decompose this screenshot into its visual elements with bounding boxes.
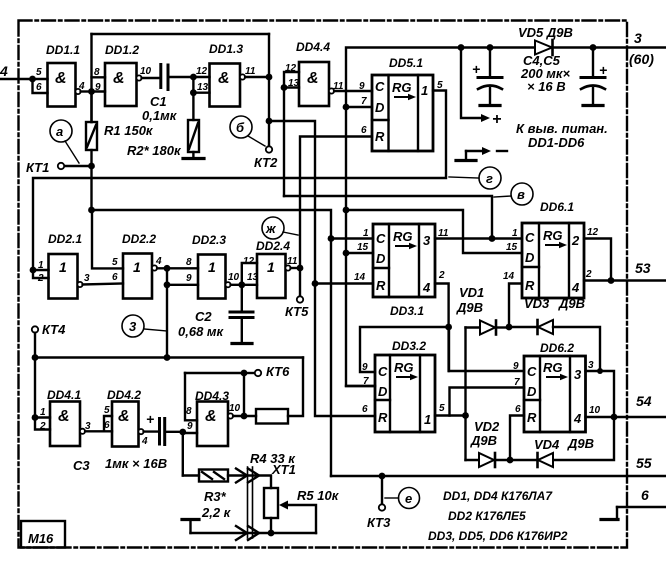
svg-text:55: 55 xyxy=(636,455,652,471)
svg-text:DD1.3: DD1.3 xyxy=(209,42,243,56)
wire node C1 down to R2 xyxy=(192,93,194,120)
wire DD3.1 D stub xyxy=(346,252,373,254)
svg-text:9: 9 xyxy=(359,81,365,92)
wire DD4.2 pin 4 to C3 xyxy=(144,430,159,432)
svg-text:15: 15 xyxy=(357,242,369,253)
wire bus DD2.2-out/KT4/R4 xyxy=(35,356,303,358)
gate DD2.2 output bubble xyxy=(152,265,157,270)
capacitor C2 xyxy=(241,285,243,312)
wire DD2.3 pin 10 to DD2.4 pins 12,13 xyxy=(231,263,257,285)
svg-text:R: R xyxy=(527,410,537,425)
svg-text:&: & xyxy=(55,70,67,87)
register DD3.2 xyxy=(375,355,435,432)
wire KT1 stub xyxy=(64,165,91,167)
svg-text:2,2 к: 2,2 к xyxy=(201,505,232,520)
wire DD1.2 pin 9 stub xyxy=(92,90,106,92)
svg-text:&: & xyxy=(58,408,70,425)
wire DD5.1 output pin 5 down-left long bus to DD2.1 xyxy=(33,91,446,271)
wire R2 to ground xyxy=(192,152,194,158)
svg-text:DD3.2: DD3.2 xyxy=(392,339,426,353)
gate DD1.1 output bubble xyxy=(75,89,80,94)
svg-text:1мк × 16В: 1мк × 16В xyxy=(105,456,167,471)
svg-text:9: 9 xyxy=(513,361,519,372)
svg-text:1: 1 xyxy=(208,259,216,275)
wire DD5.1 D pin 7 stub xyxy=(346,106,372,108)
svg-text:4: 4 xyxy=(155,256,162,267)
wire DD4.4 pin 11 to DD5.1 C xyxy=(334,90,372,92)
wire DD4.1 input pins 1,2 loop xyxy=(35,418,50,430)
svg-text:КТ4: КТ4 xyxy=(42,322,66,337)
svg-text:1: 1 xyxy=(133,259,141,275)
svg-text:VD5 Д9В: VD5 Д9В xyxy=(518,25,573,40)
svg-text:1: 1 xyxy=(424,412,431,427)
svg-text:ж: ж xyxy=(265,221,277,236)
wire v-net DD4.4 inputs to DD3.1 out bus xyxy=(284,196,492,239)
gate DD4.2 xyxy=(112,402,139,447)
svg-text:DD6.2: DD6.2 xyxy=(540,341,574,355)
gate DD1.3 xyxy=(210,64,241,107)
svg-text:10: 10 xyxy=(589,405,601,416)
svg-text:3: 3 xyxy=(85,421,91,432)
svg-text:8: 8 xyxy=(94,67,100,78)
gate DD2.1 output bubble xyxy=(77,282,82,287)
svg-text:12: 12 xyxy=(587,227,599,238)
diode VD3 D9V xyxy=(509,326,538,328)
svg-text:RG: RG xyxy=(543,360,563,375)
svg-text:ХТ1: ХТ1 xyxy=(271,462,296,477)
svg-text:3: 3 xyxy=(129,319,137,334)
gate DD2.4 xyxy=(257,254,286,298)
wire DD6.2 output 3 pin 3 xyxy=(553,371,614,460)
svg-text:&: & xyxy=(218,70,230,87)
svg-text:1: 1 xyxy=(267,259,275,275)
wire KT3 stub xyxy=(381,476,383,504)
svg-text:DD3.1: DD3.1 xyxy=(390,304,424,318)
wire net B +rail to DD6.1 D xyxy=(346,210,522,253)
ground bar under R2 xyxy=(183,157,204,160)
terminal KT3 xyxy=(379,504,385,510)
svg-text:КТ2: КТ2 xyxy=(254,155,278,170)
register DD3.1 xyxy=(373,224,435,297)
wire DD2.2 pin 4 to DD2.3 pins 8,9 and down xyxy=(157,268,198,357)
M16 designation box xyxy=(21,521,65,548)
capacitor C1 xyxy=(159,65,162,88)
connector XT1 bottom chevrons xyxy=(236,526,259,540)
svg-text:DD2.3: DD2.3 xyxy=(192,233,226,247)
wire DD1.3 pin 13 loop xyxy=(193,77,209,93)
svg-text:6: 6 xyxy=(362,404,368,415)
svg-text:D: D xyxy=(378,384,388,399)
svg-text:53: 53 xyxy=(635,260,651,276)
svg-text:КТ5: КТ5 xyxy=(285,304,309,319)
svg-text:3: 3 xyxy=(423,233,431,248)
svg-text:R5 10к: R5 10к xyxy=(297,488,340,503)
svg-text:в: в xyxy=(517,187,525,202)
svg-text:Д9В: Д9В xyxy=(470,433,497,448)
svg-text:DD1, DD4 К176ЛА7: DD1, DD4 К176ЛА7 xyxy=(443,489,553,503)
svg-text:R1 150к: R1 150к xyxy=(104,123,154,138)
svg-text:DD1.1: DD1.1 xyxy=(46,43,80,57)
gate DD4.3 output bubble xyxy=(228,413,233,418)
svg-text:15: 15 xyxy=(506,242,518,253)
svg-text:г: г xyxy=(486,171,493,186)
wire DD3.1 output 4 pin 2 down to VD1 row xyxy=(435,284,449,372)
wire +rail / D-net vertical xyxy=(346,48,666,387)
svg-text:R3*: R3* xyxy=(204,489,227,504)
node input 4 wire xyxy=(0,78,48,80)
wire DD2.1 input pins 1,2 loop xyxy=(33,270,49,278)
wire KT1-bus down to DD2.2 pin 5 xyxy=(92,210,123,268)
svg-text:+: + xyxy=(472,61,480,77)
node zh circle xyxy=(262,217,284,239)
svg-text:2: 2 xyxy=(37,273,44,284)
svg-text:C: C xyxy=(376,231,386,246)
svg-text:13: 13 xyxy=(247,272,259,283)
svg-text:2: 2 xyxy=(585,269,592,280)
svg-text:DD1-DD6: DD1-DD6 xyxy=(528,135,585,150)
svg-text:е: е xyxy=(405,491,412,506)
svg-text:DD2 К176ЛЕ5: DD2 К176ЛЕ5 xyxy=(448,509,526,523)
terminal KT6 xyxy=(255,370,261,376)
svg-text:R2* 180к: R2* 180к xyxy=(127,143,182,158)
svg-text:5: 5 xyxy=(104,405,110,416)
resistor R4 33k xyxy=(256,409,288,424)
wire line 6 with pulse symbol xyxy=(617,506,666,508)
svg-text:3: 3 xyxy=(634,30,642,46)
svg-text:3: 3 xyxy=(84,273,90,284)
svg-text:3: 3 xyxy=(574,367,582,382)
svg-text:Д9В: Д9В xyxy=(558,296,585,311)
connector XT1 top chevrons xyxy=(236,469,259,483)
svg-text:13: 13 xyxy=(197,82,209,93)
svg-text:VD2: VD2 xyxy=(474,419,500,434)
svg-text:VD3: VD3 xyxy=(524,296,550,311)
svg-text:C: C xyxy=(378,364,388,379)
svg-text:Д9В: Д9В xyxy=(567,436,594,451)
gate DD4.2 output bubble xyxy=(138,429,143,434)
wire b net KT2 node to DD3 resets xyxy=(269,121,375,416)
gate DD2.3 output bubble xyxy=(225,282,230,287)
svg-text:1: 1 xyxy=(59,259,67,275)
svg-text:DD4.3: DD4.3 xyxy=(195,389,229,403)
wire DD4.3 pin 8 from KT6 net xyxy=(185,373,197,420)
wire KT5 stub xyxy=(299,268,301,296)
svg-text:0,68 мк: 0,68 мк xyxy=(178,324,225,339)
wire line 55 bus xyxy=(331,475,666,477)
svg-text:DD2.2: DD2.2 xyxy=(122,232,156,246)
wire DD3.1 R stub xyxy=(315,282,373,284)
svg-text:4: 4 xyxy=(141,436,148,447)
svg-text:&: & xyxy=(307,70,319,87)
wire DD4.1 pin 3 to DD4.2 pins 5,6 xyxy=(85,416,112,431)
wire net A bus KT1 to clock/55 xyxy=(92,210,332,476)
capacitor C5 xyxy=(592,48,594,78)
svg-text:8: 8 xyxy=(186,257,192,268)
svg-text:10: 10 xyxy=(140,66,152,77)
wire feedback top run xyxy=(92,33,270,35)
svg-text:2: 2 xyxy=(571,233,580,248)
wire KT6 net xyxy=(185,372,244,374)
svg-text:М16: М16 xyxy=(28,531,54,546)
wire DD6.2 output 4 pin 10 to line 54 xyxy=(586,416,666,418)
svg-text:C: C xyxy=(525,230,535,245)
svg-text:RG: RG xyxy=(543,228,563,243)
register DD5.1 xyxy=(372,75,433,151)
terminal KT5 xyxy=(297,296,303,302)
wire DD3.2 output 1 pin 5 xyxy=(435,414,466,416)
svg-text:1: 1 xyxy=(512,228,518,239)
wire DD1.3 output vertical to KT2 xyxy=(268,34,270,146)
ground bar XT1 return xyxy=(182,518,199,521)
wire DD1.1 output pin 4 xyxy=(81,90,92,92)
svg-text:54: 54 xyxy=(636,393,652,409)
svg-text:КТ3: КТ3 xyxy=(367,515,391,530)
wire R4 up to bus xyxy=(288,358,303,417)
diode VD5 D9V xyxy=(535,41,552,55)
gate DD1.2 output bubble xyxy=(136,75,141,80)
svg-text:C3: C3 xyxy=(73,458,90,473)
svg-text:D: D xyxy=(527,384,537,399)
svg-text:5: 5 xyxy=(437,80,443,91)
connector XT1 columns xyxy=(247,467,249,538)
svg-text:6: 6 xyxy=(112,272,118,283)
wire DD6.2 R pin 6 down to diode junction xyxy=(510,416,524,461)
node b circle xyxy=(230,116,252,138)
wire DD4.3 pin 10 to R4 xyxy=(233,415,256,417)
wire R1 to KT1 node xyxy=(90,150,92,210)
capacitor C4 xyxy=(489,48,491,78)
svg-text:DD6.1: DD6.1 xyxy=(540,200,574,214)
svg-text:4: 4 xyxy=(422,280,431,295)
svg-text:9: 9 xyxy=(186,273,192,284)
svg-text:DD4.4: DD4.4 xyxy=(296,40,330,54)
svg-text:9: 9 xyxy=(187,421,193,432)
svg-text:10: 10 xyxy=(229,403,241,414)
svg-text:11: 11 xyxy=(287,256,298,267)
gate DD2.1 xyxy=(49,254,78,299)
wire VD3 to DD6.2 out3 xyxy=(553,327,600,371)
svg-text:2: 2 xyxy=(438,270,445,281)
svg-text:6: 6 xyxy=(104,420,110,431)
wire DD2.4 pin 11 output xyxy=(291,267,300,269)
svg-text:× 16 В: × 16 В xyxy=(527,79,566,94)
ground symbol minus supply xyxy=(465,151,467,160)
svg-text:DD5.1: DD5.1 xyxy=(389,56,423,70)
svg-text:11: 11 xyxy=(333,81,344,92)
wire DD1.2 pin 10 to C1 xyxy=(142,77,159,79)
svg-text:&: & xyxy=(113,70,125,87)
wire DD1.2 pin 8 stub xyxy=(92,76,106,78)
capacitor C3 xyxy=(158,419,161,445)
svg-text:D: D xyxy=(376,251,386,266)
svg-text:7: 7 xyxy=(361,96,367,107)
gate DD4.4 input vertical xyxy=(284,72,299,196)
svg-text:4: 4 xyxy=(571,280,580,295)
svg-text:RG: RG xyxy=(392,80,412,95)
gate DD1.3 output bubble xyxy=(240,74,245,79)
svg-text:+: + xyxy=(599,62,607,78)
gate DD4.4 output bubble xyxy=(329,88,334,93)
svg-text:DD2.4: DD2.4 xyxy=(256,239,290,253)
gate DD4.1 output bubble xyxy=(80,429,85,434)
svg-text:(60): (60) xyxy=(629,51,654,67)
wire DD3.2 out5 riser to DD6.2 D xyxy=(450,388,525,416)
wire DD2.4 out up to DD5.1 R pin 6 xyxy=(300,137,372,269)
svg-text:КТ1: КТ1 xyxy=(26,160,49,175)
svg-text:9: 9 xyxy=(95,82,101,93)
svg-text:6: 6 xyxy=(641,487,649,503)
wire feedback node vertical at x=91.5 xyxy=(90,34,92,122)
svg-text:+: + xyxy=(492,111,501,128)
wire DD3.1 C stub xyxy=(331,237,373,239)
diode VD2 D9V xyxy=(466,459,480,461)
gate DD1.1 xyxy=(48,63,76,107)
svg-text:&: & xyxy=(118,408,130,425)
terminal KT2 xyxy=(266,146,272,152)
svg-text:C: C xyxy=(375,79,385,94)
node e circle xyxy=(399,488,420,509)
svg-text:14: 14 xyxy=(503,271,515,282)
wire +supply arrow to K vyv. pitan. xyxy=(461,48,483,119)
svg-text:11: 11 xyxy=(438,228,449,239)
wire C3 to DD4.3 pin 9 and R3 xyxy=(165,432,197,476)
svg-text:КТ6: КТ6 xyxy=(266,364,290,379)
svg-text:7: 7 xyxy=(514,377,520,388)
svg-text:1: 1 xyxy=(363,228,369,239)
gate DD1.2 xyxy=(105,63,137,106)
svg-text:5: 5 xyxy=(112,257,118,268)
svg-text:R: R xyxy=(525,278,535,293)
wire DD2.1 pin 3 to DD2.2 pin 6 xyxy=(83,284,123,285)
svg-text:6: 6 xyxy=(361,125,367,136)
junction dots xyxy=(29,76,36,83)
diode VD1 D9V xyxy=(464,328,466,461)
register DD6.1 xyxy=(522,223,584,298)
node 3 circle xyxy=(122,315,144,337)
svg-text:3: 3 xyxy=(588,360,594,371)
resistor R2* 180k xyxy=(188,120,199,152)
resistor R3* 2.2k xyxy=(183,474,199,476)
svg-text:DD4.2: DD4.2 xyxy=(107,388,141,402)
gate DD4.4 xyxy=(299,62,329,106)
svg-text:а: а xyxy=(56,124,63,139)
register RG arrows xyxy=(394,96,410,98)
wire KT4 bus down to DD4.1 input xyxy=(34,358,36,418)
wire KT6 node down to DD4.3 output xyxy=(243,373,245,416)
svg-text:VD1: VD1 xyxy=(459,285,484,300)
svg-text:6: 6 xyxy=(36,82,42,93)
terminal KT4 xyxy=(32,326,38,332)
svg-text:C2: C2 xyxy=(195,309,212,324)
svg-text:D: D xyxy=(375,100,385,115)
svg-text:&: & xyxy=(205,408,217,425)
svg-text:DD4.1: DD4.1 xyxy=(47,388,81,402)
svg-text:C1: C1 xyxy=(150,94,167,109)
register DD6.2 xyxy=(524,356,586,432)
wire R3 to XT1 to R5 xyxy=(228,476,271,489)
node v circle xyxy=(511,183,533,205)
svg-text:б: б xyxy=(236,120,245,135)
wire C1 to DD1.3 pin 12 xyxy=(168,76,210,78)
svg-text:13: 13 xyxy=(288,78,300,89)
svg-text:6: 6 xyxy=(515,404,521,415)
svg-text:D: D xyxy=(525,250,535,265)
svg-text:8: 8 xyxy=(186,406,192,417)
wire DD1.3 pin 11 output xyxy=(245,76,269,78)
svg-text:RG: RG xyxy=(394,360,414,375)
svg-text:+: + xyxy=(146,411,154,427)
svg-text:12: 12 xyxy=(243,256,255,267)
svg-text:10: 10 xyxy=(228,272,240,283)
svg-text:14: 14 xyxy=(354,272,366,283)
svg-text:Д9В: Д9В xyxy=(456,300,483,315)
svg-text:DD3, DD5, DD6 К176ИР2: DD3, DD5, DD6 К176ИР2 xyxy=(428,529,568,543)
potentiometer R5 10k xyxy=(264,488,278,518)
svg-text:5: 5 xyxy=(439,403,445,414)
wire DD6.1 R pin 14 down to diode junction xyxy=(509,284,522,328)
svg-text:4: 4 xyxy=(0,63,8,79)
diode VD4 D9V xyxy=(510,459,538,461)
svg-text:2: 2 xyxy=(39,421,46,432)
svg-text:11: 11 xyxy=(245,66,256,77)
wire XT1 bottom return xyxy=(191,532,317,534)
gate DD2.3 xyxy=(198,255,226,299)
svg-text:12: 12 xyxy=(285,63,297,74)
svg-text:VD4: VD4 xyxy=(534,437,560,452)
wire DD3.1-out4 to DD3.2 C riser xyxy=(360,327,524,372)
wire DD3.1 output 3 pin 11 to DD6.1 C xyxy=(435,237,522,239)
svg-text:R: R xyxy=(378,410,388,425)
gate DD4.3 xyxy=(197,402,228,447)
svg-text:R: R xyxy=(376,278,386,293)
wire DD3.2 D stub from D-net xyxy=(346,385,375,387)
svg-text:9: 9 xyxy=(362,362,368,373)
gate DD2.2 xyxy=(123,254,152,299)
svg-text:4: 4 xyxy=(78,81,85,92)
svg-text:5: 5 xyxy=(36,67,42,78)
svg-text:R: R xyxy=(375,129,385,144)
svg-text:7: 7 xyxy=(363,376,369,387)
gate DD2.4 output bubble xyxy=(285,265,290,270)
svg-text:К выв. питан.: К выв. питан. xyxy=(516,121,608,136)
wire DD6.1 output 4 pin 2 to line 53 xyxy=(584,279,666,281)
terminal KT1 xyxy=(58,163,64,169)
gate DD4.1 xyxy=(50,402,80,447)
svg-text:0,1мк: 0,1мк xyxy=(142,108,178,123)
svg-text:RG: RG xyxy=(393,229,413,244)
svg-text:4: 4 xyxy=(573,411,582,426)
wire KT4 stub xyxy=(34,333,36,358)
svg-text:DD1.2: DD1.2 xyxy=(105,43,139,57)
resistor R1 150k xyxy=(90,92,92,123)
svg-text:1: 1 xyxy=(421,83,428,98)
node g circle xyxy=(479,167,501,189)
svg-text:1: 1 xyxy=(38,260,44,271)
svg-text:C: C xyxy=(527,364,537,379)
svg-text:1: 1 xyxy=(40,407,46,418)
node a circle xyxy=(50,120,72,142)
wire DD1.1 input loop pins 5,6 xyxy=(33,79,48,93)
wire DD6.1 output 2 pin 12 xyxy=(584,239,611,281)
svg-text:12: 12 xyxy=(196,66,208,77)
svg-text:DD2.1: DD2.1 xyxy=(48,232,82,246)
